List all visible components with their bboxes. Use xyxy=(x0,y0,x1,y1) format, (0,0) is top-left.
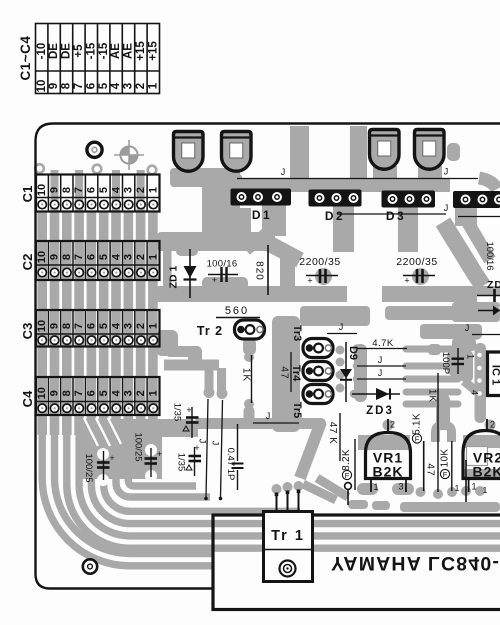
svg-text:1/35: 1/35 xyxy=(175,453,186,472)
svg-text:7: 7 xyxy=(73,83,85,89)
svg-text:B2K: B2K xyxy=(472,464,500,480)
svg-text:4: 4 xyxy=(110,389,122,396)
svg-text:C1~C4: C1~C4 xyxy=(18,36,33,81)
svg-text:3: 3 xyxy=(398,482,403,492)
transistor Tr1 xyxy=(264,512,313,582)
svg-text:J: J xyxy=(444,167,449,177)
connector D2 xyxy=(309,190,362,207)
svg-text:820: 820 xyxy=(253,261,264,281)
svg-text:+: + xyxy=(404,276,409,286)
svg-text:10K: 10K xyxy=(440,449,451,468)
transistor package Q1 xyxy=(174,132,204,172)
svg-text:J: J xyxy=(339,322,344,332)
svg-text:6: 6 xyxy=(86,323,98,329)
svg-text:7: 7 xyxy=(73,323,85,329)
via pads above C1 xyxy=(35,164,480,338)
svg-text:100/16: 100/16 xyxy=(484,241,495,270)
svg-text:Tr3: Tr3 xyxy=(291,325,303,342)
svg-text:2200/35: 2200/35 xyxy=(299,256,340,268)
svg-text:D1: D1 xyxy=(252,208,272,222)
svg-text:4: 4 xyxy=(110,322,122,329)
svg-text:5.1K: 5.1K xyxy=(412,413,423,435)
svg-text:47 K: 47 K xyxy=(327,422,338,445)
svg-text:4: 4 xyxy=(110,186,122,193)
svg-text:ZD3: ZD3 xyxy=(366,405,394,417)
svg-text:2: 2 xyxy=(135,323,147,329)
svg-text:8: 8 xyxy=(61,390,73,396)
svg-text:2: 2 xyxy=(135,254,147,260)
svg-text:10: 10 xyxy=(36,387,48,399)
svg-text:8: 8 xyxy=(61,323,73,329)
wire: Tr1 pads xyxy=(272,484,282,494)
wire: central horizontal band xyxy=(157,286,347,302)
connector D1 xyxy=(231,189,292,206)
svg-text:1K: 1K xyxy=(240,368,251,382)
svg-text:7: 7 xyxy=(73,254,85,260)
svg-text:1: 1 xyxy=(483,485,488,495)
svg-text:C4: C4 xyxy=(20,390,35,407)
transistor package Q3 xyxy=(370,130,400,170)
svg-text:2: 2 xyxy=(135,83,147,89)
svg-text:47: 47 xyxy=(424,463,435,476)
svg-text:1K: 1K xyxy=(426,389,437,403)
connector D4 xyxy=(453,191,500,208)
mounting hole top-left xyxy=(87,142,102,157)
svg-text:3: 3 xyxy=(123,254,135,260)
svg-text:+15: +15 xyxy=(135,41,147,61)
svg-text:4: 4 xyxy=(110,82,122,89)
svg-text:-15: -15 xyxy=(98,42,110,59)
svg-text:3: 3 xyxy=(123,323,135,329)
svg-text:10: 10 xyxy=(36,320,48,332)
transistor Tr1 pins xyxy=(277,491,299,513)
svg-text:3: 3 xyxy=(123,187,135,193)
svg-text:4.7K: 4.7K xyxy=(372,338,394,349)
svg-text:Tr 1: Tr 1 xyxy=(271,528,305,544)
op-amp IC1 xyxy=(488,352,500,396)
pin table C1~C4 xyxy=(36,24,160,94)
svg-text:4: 4 xyxy=(470,390,480,395)
svg-text:+5: +5 xyxy=(73,44,85,58)
potentiometer VR2 xyxy=(467,447,488,466)
svg-text:Tr 2: Tr 2 xyxy=(197,324,223,338)
silkscreen YAMAHA LC840 (flipped) xyxy=(331,552,500,574)
svg-text:J: J xyxy=(281,167,286,177)
svg-text:+: + xyxy=(186,405,191,415)
svg-text:5: 5 xyxy=(98,254,110,260)
transistor package Q4 xyxy=(415,130,445,170)
svg-text:+15: +15 xyxy=(147,41,159,61)
connector D3 xyxy=(382,191,436,208)
fiducial crosshair xyxy=(114,140,144,170)
svg-text:5: 5 xyxy=(98,323,110,329)
svg-text:D2: D2 xyxy=(325,209,345,223)
svg-text:1: 1 xyxy=(471,482,476,492)
svg-text:F: F xyxy=(415,435,420,444)
svg-text:5: 5 xyxy=(98,82,110,89)
svg-text:F: F xyxy=(443,470,448,479)
wire: IC1 pads xyxy=(476,351,483,397)
svg-text:9: 9 xyxy=(49,254,61,260)
svg-text:+: + xyxy=(157,449,162,459)
svg-text:J: J xyxy=(465,323,470,333)
svg-text:Tr5: Tr5 xyxy=(291,402,303,419)
jumper J top xyxy=(206,179,500,498)
svg-text:D3: D3 xyxy=(386,209,406,223)
svg-text:Tr4: Tr4 xyxy=(290,365,302,382)
svg-text:F: F xyxy=(345,471,350,480)
svg-text:YAMAHA LC840-I: YAMAHA LC840-I xyxy=(331,552,500,574)
connector C3 xyxy=(20,310,160,347)
svg-text:J: J xyxy=(211,441,221,446)
svg-text:1: 1 xyxy=(147,323,159,329)
mounting hole bottom-left xyxy=(83,559,97,573)
svg-text:+: + xyxy=(109,453,114,463)
wire: VR area pads xyxy=(358,435,410,450)
svg-text:100/25: 100/25 xyxy=(132,432,143,461)
connector C1 xyxy=(20,175,160,212)
svg-text:100P: 100P xyxy=(440,352,451,374)
svg-text:IC 1: IC 1 xyxy=(490,365,500,385)
svg-text:+: + xyxy=(307,276,312,286)
svg-text:10: 10 xyxy=(36,80,48,93)
svg-text:2: 2 xyxy=(135,187,147,193)
svg-text:5: 5 xyxy=(98,390,110,396)
svg-text:1: 1 xyxy=(455,483,460,493)
connector C2 xyxy=(20,241,160,280)
svg-text:7: 7 xyxy=(73,187,85,193)
svg-text:DE: DE xyxy=(61,43,73,59)
svg-text:9: 9 xyxy=(49,323,61,329)
svg-text:8: 8 xyxy=(61,82,73,89)
svg-text:8: 8 xyxy=(61,254,73,260)
svg-text:6: 6 xyxy=(86,187,98,193)
svg-text:560: 560 xyxy=(225,305,249,317)
wire: center vertical band xyxy=(272,316,300,432)
svg-text:DE: DE xyxy=(48,43,60,59)
svg-text:2200/35: 2200/35 xyxy=(396,256,437,268)
svg-text:1: 1 xyxy=(147,82,159,89)
svg-text:J: J xyxy=(378,368,383,378)
svg-text:C2: C2 xyxy=(20,254,35,271)
wire: bottom-left trace bundle xyxy=(42,430,500,566)
svg-text:2: 2 xyxy=(490,420,495,430)
svg-text:47: 47 xyxy=(278,366,289,379)
svg-text:+: + xyxy=(212,275,217,285)
connector C4 xyxy=(20,377,160,415)
svg-text:J: J xyxy=(444,203,449,213)
wire: pads right of Tr3-5 xyxy=(354,344,367,402)
svg-text:8: 8 xyxy=(61,187,73,193)
zener ZD1 xyxy=(184,249,197,298)
pin leads bottom right xyxy=(424,441,466,502)
svg-text:6: 6 xyxy=(86,390,98,396)
svg-text:1: 1 xyxy=(147,187,159,193)
svg-text:6: 6 xyxy=(86,254,98,260)
svg-text:B2K: B2K xyxy=(372,464,403,480)
svg-text:2: 2 xyxy=(135,390,147,396)
wire: top center stubs xyxy=(170,168,240,187)
potentiometer VR1 xyxy=(368,450,408,477)
svg-text:ZD 1: ZD 1 xyxy=(167,265,179,288)
svg-text:J: J xyxy=(266,411,271,421)
transistor package Q2 xyxy=(222,132,252,172)
svg-text:9: 9 xyxy=(49,187,61,193)
heatsink bracket outline xyxy=(213,515,500,610)
svg-text:10: 10 xyxy=(36,251,48,263)
svg-text:4: 4 xyxy=(110,253,122,260)
svg-text:1: 1 xyxy=(147,254,159,260)
svg-text:J: J xyxy=(378,355,383,365)
svg-text:7: 7 xyxy=(73,390,85,396)
svg-text:5: 5 xyxy=(98,187,110,193)
svg-text:1: 1 xyxy=(147,390,159,396)
svg-text:3: 3 xyxy=(123,83,135,89)
wire: upper-left horizontal band xyxy=(157,232,275,251)
board outline xyxy=(36,124,500,589)
svg-text:C1: C1 xyxy=(20,186,35,203)
svg-text:9: 9 xyxy=(49,390,61,396)
svg-text:AE: AE xyxy=(123,43,135,59)
svg-text:1/35: 1/35 xyxy=(171,403,182,422)
wire: left mid gray plane xyxy=(76,419,198,479)
svg-text:C3: C3 xyxy=(20,323,35,340)
svg-text:AE: AE xyxy=(110,43,122,59)
svg-text:1: 1 xyxy=(373,482,378,492)
svg-text:8.2K: 8.2K xyxy=(341,449,352,471)
svg-text:100/25: 100/25 xyxy=(83,453,94,482)
svg-text:1: 1 xyxy=(466,354,476,359)
svg-text:+: + xyxy=(194,443,199,453)
zener ZD3 xyxy=(352,388,400,400)
svg-text:-15: -15 xyxy=(85,42,97,59)
svg-text:10: 10 xyxy=(36,184,48,196)
wire: C1-C4 column traces xyxy=(37,212,47,435)
svg-text:3: 3 xyxy=(123,390,135,396)
svg-text:6: 6 xyxy=(85,83,97,89)
svg-text:9: 9 xyxy=(48,83,60,89)
svg-text:-10: -10 xyxy=(36,43,48,60)
svg-text:2: 2 xyxy=(390,420,395,430)
